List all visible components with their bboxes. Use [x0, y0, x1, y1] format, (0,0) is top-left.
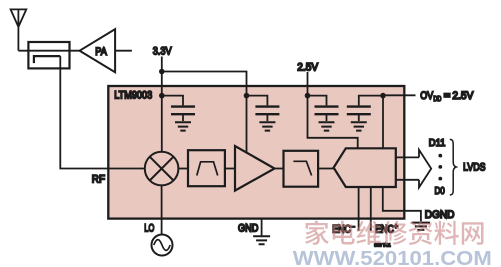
wire: 2.5V branch to ADC left — [308, 96, 358, 149]
LO source oscillator — [152, 235, 173, 256]
svg-text:LO: LO — [144, 223, 154, 235]
wire: antenna to duplexer — [17, 27, 19, 51]
svg-text:LTM9003: LTM9003 — [114, 89, 152, 101]
svg-text:OV: OV — [420, 90, 433, 102]
ground (internal C3) — [319, 122, 335, 130]
svg-text:RF: RF — [92, 174, 105, 186]
bypass capacitor C1 — [171, 107, 195, 121]
wire: RF path duplexer to mixer — [60, 56, 145, 168]
svg-text:DD: DD — [433, 94, 441, 103]
wire: PA output — [115, 50, 132, 52]
wire: 3.3V to amplifier — [246, 96, 248, 153]
module U1 LTM9003 body — [108, 86, 404, 219]
duplexer coupled line — [34, 56, 60, 63]
ground (internal C2) — [259, 122, 275, 130]
wire: mixer to bandpass filter — [178, 168, 188, 170]
junction: 3.3V node — [159, 69, 165, 75]
ADC A/D converter — [334, 148, 396, 187]
junction: 3.3V mixer node — [159, 93, 165, 99]
duplexer filter — [28, 42, 69, 68]
svg-text:D11: D11 — [429, 137, 446, 149]
svg-text:2.5V: 2.5V — [297, 62, 319, 74]
watermark chinese text (vector glyphs) — [305, 221, 484, 245]
svg-text:D0: D0 — [435, 185, 445, 197]
label OVDD = 2.5V — [420, 90, 474, 103]
wire: DGND from ADC — [383, 187, 421, 222]
svg-text:2.5V: 2.5V — [452, 90, 474, 102]
bypass capacitor C2 — [255, 107, 279, 121]
junction: 3.3V amp node — [244, 93, 250, 99]
ground DGND — [412, 223, 430, 230]
amplifier PA — [80, 29, 116, 72]
wire: D0 output line — [396, 179, 419, 181]
junction: OVDD node — [380, 93, 386, 99]
ground (internal C1) — [175, 122, 191, 130]
svg-text:WWW.520101.COM: WWW.520101.COM — [293, 248, 492, 267]
svg-text:DGND: DGND — [425, 209, 455, 221]
bypass capacitor C3 — [315, 107, 339, 121]
pin ENC- — [358, 187, 360, 231]
wire: bypass cap C2 tap — [247, 96, 268, 106]
wire: mixer LO stem — [161, 185, 163, 234]
wire: bypass cap C1 tap — [162, 96, 183, 106]
bus arrowhead D11-D0 — [419, 150, 431, 188]
mixer — [145, 152, 179, 186]
ground (internal C4) — [351, 122, 367, 130]
wire: OVDD node to ADC top — [382, 96, 384, 149]
antenna — [11, 9, 27, 27]
svg-text:PA: PA — [95, 46, 107, 58]
pin GND — [261, 219, 263, 236]
wire: 2.5V stem — [307, 72, 309, 96]
wire: bypass cap C4 tap — [359, 96, 383, 106]
wire: amplifier to lowpass filter — [275, 168, 284, 170]
brace LVDS bus — [450, 139, 456, 195]
wire: 3.3V to mixer — [161, 96, 163, 152]
ground GND — [253, 236, 270, 244]
lowpass filter — [284, 151, 319, 187]
svg-text:LVDS: LVDS — [463, 161, 485, 173]
svg-text:3.3V: 3.3V — [153, 46, 172, 58]
wire: bandpass filter to amplifier — [225, 168, 235, 170]
wire: lowpass filter to ADC — [318, 168, 334, 170]
amplifier A1 — [235, 146, 275, 191]
bypass capacitor C4 — [347, 107, 371, 121]
wire: D11 output line — [396, 156, 419, 158]
pin ENC+ — [370, 187, 372, 231]
wire: 3.3V stem — [161, 57, 163, 96]
svg-text:GND: GND — [238, 223, 258, 235]
wire: 3.3V rail to amp branch — [162, 72, 247, 96]
svg-text:=: = — [444, 90, 451, 102]
node: bus ellipsis dots — [438, 154, 442, 181]
wire: antenna-duplexer-PA through line — [18, 50, 79, 52]
bandpass filter — [188, 150, 225, 186]
junction: 2.5V node — [305, 93, 311, 99]
wire: bypass cap C3 tap — [308, 96, 327, 106]
wire: OVDD output pin — [383, 94, 416, 96]
